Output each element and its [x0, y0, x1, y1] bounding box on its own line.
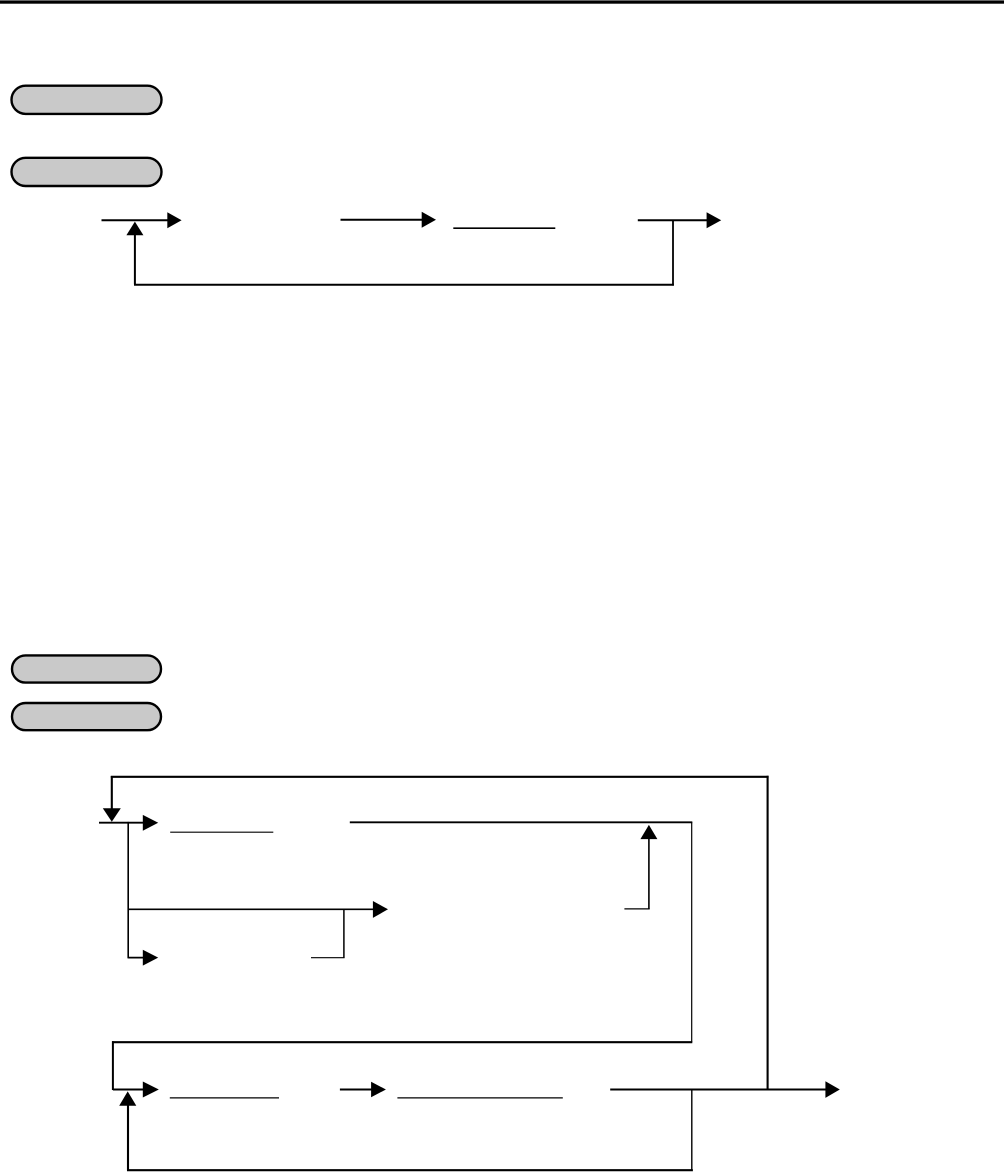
diagram 2 middle branch wire [128, 908, 374, 910]
diagram 2 bottom branch arrow [128, 950, 158, 966]
diagram 2 branch vertical wire [127, 822, 129, 959]
diagram 1 exit arrow [638, 212, 721, 228]
diagram 2 rail B exit arrowhead [825, 1081, 839, 1098]
diagram 1 loop up-arrowhead [126, 222, 143, 236]
diagram 2 middle branch arrowhead [373, 901, 388, 918]
diagram 2 rail A main wire [350, 821, 693, 823]
top rule bar [0, 0, 1004, 3]
diagram 2 top bypass wire [111, 776, 769, 778]
diagram 2 rail B loop left vertical wire [127, 1105, 129, 1171]
diagram 2 rail B middle arrow [340, 1082, 386, 1098]
diagram 2 wrap return wire [112, 1041, 692, 1043]
diagram 2 rail B loop bottom wire [127, 1169, 693, 1171]
diagram 1 loop bottom wire [134, 284, 674, 286]
diagram 2 right thin vertical wire [691, 822, 693, 1042]
diagram 2 entry drop wire [111, 776, 113, 810]
diagram 1 loop right vertical wire [672, 220, 674, 285]
diagram 2 rail B loop right vertical wire [691, 1090, 693, 1171]
diagram 2 wrap left vertical wire [112, 1041, 114, 1090]
pill terminal 1 [12, 86, 162, 114]
diagram 2 bottom branch return wire [311, 957, 345, 959]
diagram 2 rail A stub wire [99, 822, 145, 824]
diagram 2 rail B loop up-arrowhead [119, 1091, 136, 1105]
pill terminal 4 [12, 703, 161, 730]
diagram 2 rail B stub wire [113, 1089, 145, 1091]
diagram 1 variable underline [453, 227, 555, 229]
pill terminal 2 [12, 158, 162, 186]
diagram 2 feedback vertical wire [648, 838, 650, 909]
diagram 1 entry arrow [102, 212, 182, 228]
diagram 2 feedback up-arrowhead [640, 825, 657, 839]
diagram 2 bypass right vertical wire [767, 776, 769, 1090]
diagram 2 entry down-arrowhead [103, 808, 121, 822]
diagram 2 branch join tick wire [343, 909, 345, 958]
diagram 2 rail B first underline [170, 1097, 279, 1099]
diagram 2 rail B exit wire [610, 1088, 826, 1090]
diagram 2 rail B second underline [397, 1097, 562, 1099]
diagram 2 rail A first arrowhead [143, 815, 158, 831]
pill terminal 3 [12, 655, 161, 682]
diagram 2 rail A variable underline [170, 831, 273, 833]
diagram 2 feedback stub wire [624, 908, 649, 910]
diagram 1 loop left vertical wire [134, 234, 136, 284]
diagram 2 rail B first arrowhead [143, 1082, 159, 1098]
diagram 1 middle arrow [341, 212, 437, 228]
